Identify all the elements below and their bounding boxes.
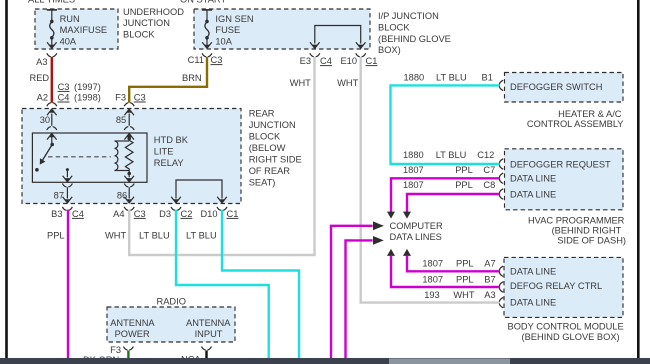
svg-text:C4: C4 (320, 56, 332, 66)
label NCA (181, 354, 201, 364)
label WHT (E3) (290, 78, 311, 88)
fuse F2 value label (215, 14, 253, 46)
svg-text:PPL: PPL (455, 180, 473, 190)
relay coil inductor (115, 141, 130, 171)
wire PPL hub feed 1 (331, 226, 373, 358)
svg-text:C3: C3 (134, 209, 146, 219)
wire bracket D3-D10 inside relay box (176, 180, 222, 199)
wire PPL 1807 C7 (391, 178, 500, 213)
svg-text:RED: RED (30, 73, 50, 83)
svg-text:(1998): (1998) (74, 92, 101, 102)
svg-text:C11: C11 (188, 55, 204, 65)
svg-text:DEFOG RELAY CTRL: DEFOG RELAY CTRL (510, 281, 602, 291)
svg-text:RELAY: RELAY (154, 158, 184, 168)
svg-text:193: 193 (424, 290, 440, 300)
svg-text:I/P JUNCTION: I/P JUNCTION (378, 11, 439, 21)
label A2 / C4 (1998) (37, 92, 101, 102)
arrow right hub 1 (373, 221, 384, 230)
bottom scrollbar track (0, 358, 650, 364)
svg-text:JUNCTION: JUNCTION (249, 120, 296, 130)
wire WHT A4 to E3 (129, 57, 314, 255)
svg-text:C1: C1 (227, 209, 239, 219)
svg-text:C4: C4 (72, 209, 84, 219)
svg-text:E10: E10 (340, 56, 357, 66)
wire NCA black (205, 351, 207, 359)
svg-text:C4: C4 (58, 92, 70, 102)
svg-text:C3: C3 (211, 55, 223, 65)
wire BRN C11-F3 (129, 57, 207, 103)
left page border (5, 0, 8, 358)
wire PPL 1807 A7 (407, 255, 500, 271)
connector B1 (499, 80, 503, 90)
label 1807 PPL B7 (422, 274, 495, 284)
wire bracket E3-E10 inside I/P block (315, 26, 361, 44)
connector F3 (radio) (110, 345, 133, 355)
relay coil dashed actuator line (48, 156, 111, 158)
label WHT (A4) (105, 231, 126, 241)
svg-text:DATA LINE: DATA LINE (510, 297, 556, 307)
label 1880 LT BLU C12 (403, 150, 494, 160)
svg-text:D10: D10 (200, 209, 217, 219)
right page border (637, 0, 640, 358)
connector A3 (BCM) (499, 297, 503, 307)
svg-text:DATA LINE: DATA LINE (510, 267, 556, 277)
pin 86 inner exit (124, 184, 134, 199)
svg-text:COMPUTER: COMPUTER (390, 221, 443, 231)
label 1880 LT BLU B1 (404, 72, 493, 82)
wire PPL 1807 B7 (391, 255, 500, 287)
component box: defogger switch (505, 73, 624, 103)
label RED (30, 73, 50, 83)
arrow out of maxifuse (47, 42, 57, 49)
connector A2 entry (47, 103, 57, 115)
net label HOT ON START (clipped) (180, 0, 226, 5)
wire DK GRN (127, 351, 129, 359)
arrow into E3 (310, 42, 320, 49)
label ANTENNA POWER (110, 318, 155, 339)
arrow down C8 (403, 212, 411, 219)
connector A7 (499, 266, 503, 276)
svg-text:C8: C8 (483, 180, 495, 190)
connector D10 C1 (200, 207, 238, 219)
pin 85 inner connector (124, 127, 134, 140)
connector A3 (36, 53, 57, 67)
svg-text:C2: C2 (181, 209, 193, 219)
svg-text:LT BLU: LT BLU (186, 231, 217, 241)
fuse F2 IGN SEN FUSE 10A symbol (202, 10, 212, 45)
svg-text:1807: 1807 (422, 274, 443, 284)
arrow up B7 (387, 249, 395, 256)
label DEFOG RELAY CTRL (510, 281, 602, 291)
svg-text:PPL: PPL (47, 231, 65, 241)
wire PPL B3 down (67, 210, 69, 358)
connector B3 C4 (51, 207, 84, 219)
pin 30 inner connector (47, 127, 57, 140)
relay switch arm (35, 145, 52, 172)
svg-text:PPL: PPL (455, 165, 473, 175)
svg-text:A7: A7 (484, 258, 495, 268)
fuse box: I/P junction block (194, 9, 370, 49)
fuse box: underhood junction block (35, 9, 118, 49)
svg-text:E3: E3 (300, 56, 311, 66)
net label HOT AT ALL TIMES (clipped) (28, 0, 75, 5)
svg-text:C7: C7 (483, 165, 495, 175)
label RADIO (157, 297, 186, 307)
svg-text:ANTENNA: ANTENNA (110, 318, 155, 328)
svg-text:F3: F3 (110, 345, 121, 355)
svg-text:D3: D3 (159, 209, 171, 219)
pin 87 lead (54, 170, 73, 201)
pin 30 lead (40, 114, 52, 126)
svg-text:C3: C3 (58, 82, 70, 92)
svg-text:40A: 40A (60, 36, 77, 46)
connector D3 C2 (159, 207, 192, 219)
label DEFOGGER REQUEST (510, 159, 611, 169)
component box: body control module (504, 257, 623, 317)
svg-text:DEFOGGER REQUEST: DEFOGGER REQUEST (510, 159, 611, 169)
svg-text:DATA LINE: DATA LINE (510, 189, 556, 199)
svg-text:(BELOW: (BELOW (249, 143, 286, 153)
arrow down C7 (387, 212, 395, 219)
svg-text:UNDERHOOD: UNDERHOOD (123, 7, 184, 17)
svg-text:(BEHIND GLOVE BOX): (BEHIND GLOVE BOX) (522, 332, 620, 342)
arrow out A4 (124, 197, 134, 204)
svg-text:BLOCK: BLOCK (249, 131, 281, 141)
svg-text:1880: 1880 (403, 150, 424, 160)
svg-text:POWER: POWER (115, 329, 150, 339)
arrow right hub 2 (373, 236, 384, 245)
svg-text:FUSE: FUSE (215, 25, 240, 35)
svg-text:B7: B7 (484, 274, 495, 284)
svg-text:(BEHIND GLOVE: (BEHIND GLOVE (378, 34, 451, 44)
connector A4 C3 (113, 207, 146, 219)
svg-text:B3: B3 (51, 209, 62, 219)
svg-text:OF REAR: OF REAR (249, 166, 291, 176)
label HEATER & A/C CONTROL ASSEMBLY (527, 109, 624, 129)
svg-text:B1: B1 (482, 72, 493, 82)
label DATA LINE (C8) (510, 189, 556, 199)
arrow up A7 (403, 249, 411, 256)
svg-text:RUN: RUN (60, 14, 80, 24)
connector C7 (499, 173, 503, 183)
svg-text:WHT: WHT (105, 231, 126, 241)
arrow out D3 (171, 197, 181, 204)
svg-text:BODY CONTROL MODULE: BODY CONTROL MODULE (508, 322, 624, 332)
component box: radio (107, 307, 235, 342)
svg-text:CONTROL ASSEMBLY: CONTROL ASSEMBLY (527, 119, 624, 129)
component box: HVAC programmer (505, 149, 624, 210)
label PPL (47, 231, 65, 241)
fuse F1 RUN MAXIFUSE 40A symbol (47, 10, 57, 45)
svg-text:C1: C1 (366, 56, 378, 66)
svg-text:LT BLU: LT BLU (436, 150, 467, 160)
svg-text:JUNCTION: JUNCTION (123, 18, 170, 28)
svg-text:LT BLU: LT BLU (139, 231, 170, 241)
svg-text:BOX): BOX) (378, 45, 401, 55)
svg-text:A3: A3 (484, 290, 495, 300)
arrow out of ign fuse (202, 42, 212, 49)
label 1807 PPL A7 (422, 258, 495, 268)
label REAR JUNCTION BLOCK (BELOW RIGHT SIDE OF REAR SEAT) (249, 108, 302, 187)
label 193 WHT A3 (424, 290, 495, 300)
svg-text:HEATER & A/C: HEATER & A/C (558, 109, 622, 119)
svg-text:LT BLU: LT BLU (436, 72, 467, 82)
svg-text:SEAT): SEAT) (249, 177, 276, 187)
bottom scrollbar thumb (389, 358, 510, 364)
label DATA LINE (A3) (510, 297, 556, 307)
arrow out B3 (63, 197, 73, 204)
label 1807 PPL C7 (403, 165, 495, 175)
svg-text:(1997): (1997) (74, 82, 101, 92)
relay coil resistor (125, 137, 133, 176)
svg-text:RADIO: RADIO (157, 297, 186, 307)
label DATA LINE (A7) (510, 267, 556, 277)
connector E10 C1 (340, 53, 377, 66)
svg-text:INPUT: INPUT (195, 329, 223, 339)
svg-text:ON START: ON START (180, 0, 226, 5)
svg-text:DEFOGGER SWITCH: DEFOGGER SWITCH (510, 82, 602, 92)
svg-text:WHT: WHT (453, 290, 474, 300)
label I/P JUNCTION BLOCK (BEHIND GLOVE BOX) (378, 11, 451, 55)
label F3 C3 (115, 92, 146, 102)
svg-text:WHT: WHT (290, 78, 311, 88)
pin 85 lead (116, 114, 129, 126)
wire LT BLU 1880 to defogger switch and C12 (391, 85, 501, 164)
label LT BLU (D10) (186, 231, 217, 241)
svg-text:A2: A2 (37, 92, 48, 102)
label LT BLU (D3) (139, 231, 170, 241)
arrow into E10 (356, 42, 366, 49)
connector C11 C3 (188, 53, 223, 65)
svg-text:1807: 1807 (422, 258, 443, 268)
wire PPL 1807 C8 (407, 194, 500, 213)
svg-text:SIDE OF DASH): SIDE OF DASH) (557, 235, 626, 245)
svg-text:1807: 1807 (403, 165, 424, 175)
fuse F1 value label (60, 14, 108, 46)
svg-text:WHT: WHT (337, 78, 358, 88)
arrow out D10 (217, 197, 227, 204)
svg-text:HTD BK: HTD BK (154, 135, 189, 145)
svg-text:PPL: PPL (456, 274, 474, 284)
wire PPL hub feed 2 (346, 240, 373, 358)
svg-text:10A: 10A (215, 36, 232, 46)
wire LT BLU D3 down (176, 210, 269, 358)
label ANTENNA INPUT (186, 318, 231, 339)
connector B7 (499, 282, 503, 292)
connector NCA (radio) (202, 347, 212, 350)
label 1807 PPL C8 (403, 180, 495, 190)
svg-text:REAR: REAR (249, 108, 275, 118)
svg-text:ALL TIMES: ALL TIMES (28, 0, 75, 5)
label HVAC PROGRAMMER (BEHIND RIGHT SIDE OF DASH) (528, 215, 626, 245)
svg-text:DATA LINE: DATA LINE (510, 174, 556, 184)
svg-text:87: 87 (54, 191, 64, 201)
label DEFOGGER SWITCH (510, 82, 602, 92)
svg-text:ANTENNA: ANTENNA (186, 318, 231, 328)
svg-text:RIGHT SIDE: RIGHT SIDE (249, 154, 302, 164)
connector C8 (499, 189, 503, 199)
svg-text:1807: 1807 (403, 180, 424, 190)
svg-text:PPL: PPL (456, 258, 474, 268)
label COMPUTER DATA LINES (390, 221, 443, 242)
pin 87 inner exit (62, 184, 72, 199)
svg-text:C3: C3 (134, 92, 146, 102)
relay U1 inner box (32, 133, 147, 182)
wire WHT E10 to BCM A3 (361, 57, 500, 303)
svg-text:C12: C12 (477, 150, 494, 160)
wire RED A3-A2 (51, 57, 53, 103)
svg-text:30: 30 (40, 115, 50, 125)
pin 86 lead (117, 175, 134, 201)
relay box: rear junction block (22, 109, 241, 204)
svg-text:85: 85 (116, 115, 126, 125)
svg-text:F3: F3 (115, 92, 126, 102)
label DATA LINE (C7) (510, 174, 556, 184)
label HTD BK LITE RELAY (154, 135, 189, 168)
svg-text:BRN: BRN (182, 73, 202, 83)
connector E3 C4 (300, 53, 332, 66)
connector C12 (499, 159, 503, 169)
label BRN (182, 73, 202, 83)
svg-text:LITE: LITE (154, 146, 174, 156)
svg-text:DATA LINES: DATA LINES (390, 232, 442, 242)
connector F3 entry (124, 103, 134, 115)
svg-text:BLOCK: BLOCK (378, 22, 410, 32)
label BODY CONTROL MODULE (BEHIND GLOVE BOX) (508, 322, 624, 343)
svg-text:BLOCK: BLOCK (123, 30, 155, 40)
svg-text:(BEHIND RIGHT: (BEHIND RIGHT (552, 225, 622, 235)
svg-text:1880: 1880 (404, 72, 425, 82)
svg-text:MAXIFUSE: MAXIFUSE (60, 25, 108, 35)
svg-text:A3: A3 (36, 57, 47, 67)
label WHT (E10) (337, 78, 358, 88)
svg-text:HVAC PROGRAMMER: HVAC PROGRAMMER (528, 215, 625, 225)
label C3 (1997) (58, 82, 101, 92)
svg-text:A4: A4 (113, 209, 124, 219)
relay 87 contact dot (66, 168, 69, 171)
wire LT BLU D10 down (222, 210, 299, 358)
relay switch pivot (50, 134, 54, 146)
label DK GRN (clipped) (83, 355, 119, 364)
svg-text:IGN SEN: IGN SEN (215, 14, 253, 24)
label UNDERHOOD JUNCTION BLOCK (123, 7, 184, 40)
